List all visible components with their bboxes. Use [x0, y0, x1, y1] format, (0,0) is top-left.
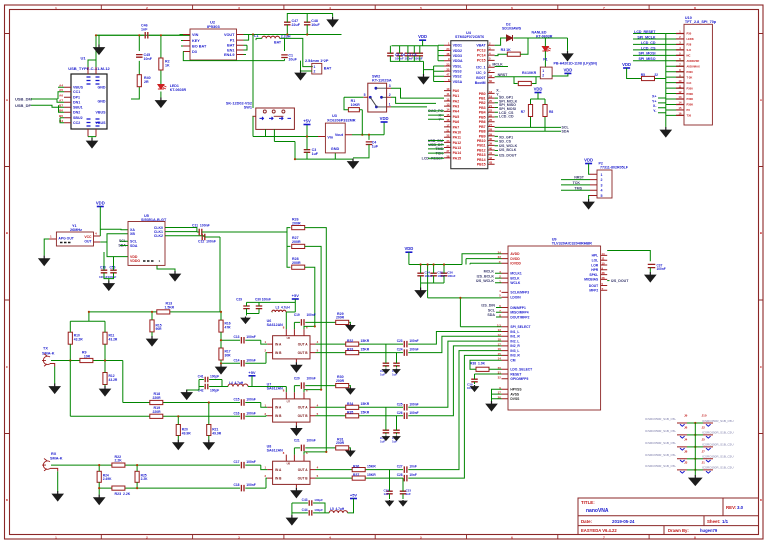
- ground top power rail: [332, 17, 334, 20]
- svg-text:VSS3: VSS3: [453, 70, 462, 74]
- svg-text:L1: L1: [254, 34, 258, 38]
- capacitor C46 1nF: [145, 32, 148, 39]
- wire bypass caps bus: [390, 46, 423, 74]
- ground L5 cluster: [291, 515, 293, 518]
- svg-text:R8: R8: [549, 110, 553, 114]
- U9 right pin stubs: [601, 255, 608, 290]
- bypass capacitors C5-C9 100nF: [387, 53, 394, 56]
- svg-text:PB0: PB0: [479, 92, 486, 96]
- connector TX SMA: [42, 354, 50, 366]
- svg-text:Date:: Date:: [581, 519, 593, 524]
- capacitor C35 100nF: [430, 273, 437, 276]
- svg-text:X+: X+: [652, 94, 657, 98]
- junction dots coupler: [177, 415, 179, 417]
- svg-text:P30: P30: [687, 32, 692, 36]
- wire R25 stems: [136, 465, 138, 488]
- svg-text:USB_DP: USB_DP: [15, 103, 32, 108]
- svg-text:IN1_L: IN1_L: [510, 330, 519, 334]
- svg-text:PA7: PA7: [453, 125, 460, 129]
- svg-text:GND: GND: [98, 86, 106, 90]
- connector BAT 2pin: [312, 63, 322, 74]
- ground LDO gnd bus: [352, 159, 354, 162]
- svg-text:IN B: IN B: [275, 351, 282, 355]
- svg-text:I2S_BCLK: I2S_BCLK: [499, 148, 517, 152]
- resistor R27 200R: [292, 244, 305, 248]
- svg-text:100nF: 100nF: [409, 348, 418, 352]
- ground C31: [396, 436, 398, 437]
- svg-text:I2S_WCLK: I2S_WCLK: [476, 279, 495, 283]
- U10 pin stubs: [666, 34, 684, 116]
- frame zone ticks top: [101, 5, 649, 10]
- capacitor C30 1uF shunt: [383, 430, 390, 433]
- wire VDD to R5: [627, 68, 666, 79]
- svg-text:MCLK: MCLK: [484, 270, 495, 274]
- svg-text:ICSRC650R_S1B_C5L: ICSRC650R_S1B_C5L: [645, 441, 676, 445]
- svg-text:C50: C50: [110, 265, 116, 269]
- svg-text:12: 12: [498, 333, 502, 337]
- svg-text:17: 17: [446, 123, 450, 127]
- power VDD MCU: [419, 39, 426, 41]
- svg-text:R5: R5: [641, 73, 645, 77]
- svg-text:PA12: PA12: [453, 141, 462, 145]
- svg-text:DIN/MFP1: DIN/MFP1: [510, 306, 526, 310]
- svg-text:100nF: 100nF: [246, 483, 256, 487]
- wire C37 to gnd: [649, 268, 651, 272]
- wire MCLK stub: [495, 66, 508, 68]
- diode D2: [507, 35, 513, 41]
- svg-text:PA1: PA1: [453, 94, 460, 98]
- svg-text:18: 18: [489, 90, 493, 94]
- P2 pin stubs: [590, 174, 597, 195]
- svg-text:ICSRC650R_S1B_C5L: ICSRC650R_S1B_C5L: [645, 429, 676, 433]
- capacitor C22 1uF shunt: [393, 363, 400, 366]
- svg-text:TCK: TCK: [573, 181, 581, 185]
- svg-text:2: 2: [314, 70, 316, 74]
- wire SCL SDA: [495, 127, 561, 131]
- resistor R20 49.9R: [176, 425, 180, 436]
- svg-text:SDA: SDA: [130, 244, 138, 248]
- svg-text:15KR: 15KR: [367, 473, 376, 477]
- inductor L1 2.2uH: [262, 36, 280, 38]
- wire MCU left lower stubs: [428, 111, 444, 158]
- svg-text:PA11: PA11: [453, 136, 461, 140]
- svg-text:2.2K: 2.2K: [115, 459, 123, 463]
- svg-text:NRST: NRST: [498, 73, 509, 77]
- wire R17 stems: [220, 340, 222, 363]
- wire U5 SCL SDA stubs: [120, 241, 128, 245]
- resistor R3 1K: [507, 52, 520, 56]
- svg-text:LEDK: LEDK: [687, 37, 694, 41]
- svg-text:1/1: 1/1: [722, 519, 729, 524]
- svg-text:2R: 2R: [144, 80, 149, 84]
- svg-text:43.2R: 43.2R: [74, 338, 83, 342]
- svg-text:22: 22: [654, 73, 658, 77]
- svg-text:VSSA: VSSA: [453, 80, 463, 84]
- svg-text:J3: J3: [684, 461, 688, 465]
- wire LCD signal wires: [633, 34, 666, 61]
- svg-text:VBUS: VBUS: [96, 111, 107, 115]
- svg-text:KT-0603R: KT-0603R: [536, 34, 553, 38]
- svg-text:ICSRC650R_S1B_C5U: ICSRC650R_S1B_C5U: [702, 419, 734, 423]
- svg-text:I2C_0: I2C_0: [476, 71, 485, 75]
- svg-text:IN B: IN B: [275, 477, 282, 481]
- svg-text:LCD_CD: LCD_CD: [499, 115, 514, 119]
- svg-text:T30: T30: [687, 114, 692, 118]
- IC U9 TLV320AIC3204: [508, 246, 601, 410]
- capacitor C11 100nF series: [199, 229, 202, 236]
- ground R30: [349, 387, 351, 389]
- inductor L4 4.7uH: [228, 384, 248, 387]
- U8 pin stubs: [267, 455, 315, 488]
- wire MCU right lower stubs: [495, 136, 498, 155]
- ground below U10 bus: [665, 127, 667, 130]
- svg-text:200R: 200R: [292, 240, 301, 244]
- svg-text:100pF: 100pF: [210, 388, 219, 392]
- svg-text:C28: C28: [397, 473, 403, 477]
- junction dot LO U7: [320, 389, 322, 391]
- svg-text:1uF: 1uF: [312, 152, 319, 156]
- power +5V SW1 out: [304, 124, 311, 126]
- frame zone ticks left: [5, 34, 10, 434]
- svg-text:OUT: OUT: [84, 239, 92, 243]
- svg-text:PA4: PA4: [453, 110, 460, 114]
- svg-text:GND: GND: [331, 147, 340, 151]
- U4 right pin stubs: [488, 45, 495, 164]
- wire R21 stems: [208, 403, 210, 440]
- capacitor C44 100pF: [309, 510, 312, 516]
- ground below U1: [91, 138, 93, 141]
- ground below LED1: [160, 98, 162, 101]
- svg-text:25: 25: [489, 113, 493, 117]
- svg-text:VDD: VDD: [563, 67, 572, 72]
- resistor R23 2.2K: [112, 486, 125, 490]
- svg-text:15KR: 15KR: [361, 411, 370, 415]
- svg-text:49.9R: 49.9R: [212, 431, 221, 435]
- ground U5: [174, 271, 176, 274]
- wire L1 branch: [253, 35, 313, 109]
- svg-text:CC1: CC1: [73, 90, 80, 94]
- U2 left pin stubs: [183, 35, 190, 52]
- svg-text:220R: 220R: [153, 410, 162, 414]
- svg-text:OUT B: OUT B: [298, 414, 309, 418]
- svg-text:KEY: KEY: [192, 39, 200, 43]
- svg-text:IN1_R: IN1_R: [510, 335, 520, 339]
- svg-text:R33: R33: [347, 348, 353, 352]
- svg-text:IN3_R: IN3_R: [510, 354, 520, 358]
- wire R1 connections: [344, 97, 363, 134]
- svg-text:+5V: +5V: [292, 293, 300, 298]
- svg-text:IN A: IN A: [275, 343, 282, 347]
- svg-text:VDD: VDD: [418, 34, 427, 39]
- wire TX shell to gnd: [50, 364, 55, 367]
- svg-text:38: 38: [602, 271, 606, 275]
- wire VDD bus MCU left: [391, 40, 444, 61]
- svg-text:LOL: LOL: [592, 259, 599, 263]
- svg-text:ICSRC650R_S1B_C5U: ICSRC650R_S1B_C5U: [702, 431, 734, 435]
- svg-text:3: 3: [601, 183, 603, 187]
- svg-text:U6: U6: [287, 336, 291, 340]
- wire R2 LED branch: [160, 35, 162, 98]
- svg-text:100nF: 100nF: [246, 460, 256, 464]
- power VDD codec: [405, 251, 412, 253]
- resistor R37 15K: [352, 476, 365, 480]
- svg-text:100nF: 100nF: [246, 358, 256, 362]
- capacitor C34 100nF: [417, 273, 424, 276]
- wire R12 stems: [104, 361, 106, 387]
- IC U8 SA612AN mixer: [273, 461, 310, 484]
- wire U1 CC pins: [58, 87, 64, 123]
- svg-text:15: 15: [446, 113, 450, 117]
- capacitor C29b 100nF bypass: [243, 306, 250, 309]
- svg-text:2: 2: [389, 93, 391, 97]
- svg-text:29: 29: [489, 132, 493, 136]
- svg-text:100nF: 100nF: [307, 439, 316, 443]
- svg-text:SPKL: SPKL: [589, 273, 598, 277]
- svg-text:SCLK/MFP3: SCLK/MFP3: [510, 291, 529, 295]
- svg-text:BO0T: BO0T: [476, 76, 486, 80]
- wire C32 C33 shunts: [390, 470, 404, 499]
- svg-text:SW1: SW1: [244, 106, 252, 110]
- wire C3 stems: [306, 137, 308, 160]
- ground below U7: [295, 425, 297, 428]
- frame zone ticks bottom: [101, 535, 649, 540]
- svg-text:MISO/MFP4: MISO/MFP4: [510, 311, 528, 315]
- wire U2 VIN from USB VBUS: [180, 34, 183, 37]
- svg-text:PA14: PA14: [453, 151, 462, 155]
- svg-text:R37: R37: [353, 473, 359, 477]
- +5V L4 cluster power: [249, 375, 256, 377]
- svg-text:ICSRC650R_S1B_C5U: ICSRC650R_S1B_C5U: [702, 455, 734, 459]
- wire VSS pins bus: [424, 66, 445, 82]
- svg-text:L3 4.7uH: L3 4.7uH: [276, 305, 291, 309]
- svg-text:77311-802R05LF: 77311-802R05LF: [600, 166, 629, 170]
- svg-text:C17: C17: [233, 460, 239, 464]
- svg-text:MICBIAS: MICBIAS: [584, 278, 599, 282]
- svg-text:R23: R23: [115, 492, 122, 496]
- svg-text:2019-05-24: 2019-05-24: [612, 519, 635, 524]
- capacitor C23 100nF series: [404, 341, 407, 348]
- svg-text:10R: 10R: [84, 354, 91, 358]
- wire Y1 pin1 to gnd: [44, 239, 49, 256]
- svg-text:100pF: 100pF: [314, 498, 323, 502]
- svg-text:DOUT/MFP2: DOUT/MFP2: [510, 315, 529, 319]
- wire U7 oscillator line: [294, 386, 350, 393]
- svg-text:J9: J9: [684, 414, 688, 418]
- svg-text:1.0K: 1.0K: [478, 362, 486, 366]
- svg-text:18: 18: [498, 338, 502, 342]
- wire VDD to Y1 and U5: [100, 207, 128, 257]
- svg-text:PB9: PB9: [479, 134, 486, 138]
- svg-text:2: 2: [542, 74, 544, 78]
- capacitor C17 100nF series: [241, 462, 244, 469]
- svg-text:C26: C26: [397, 411, 403, 415]
- svg-text:AVDD: AVDD: [510, 252, 520, 256]
- svg-text:EASYEDA V6.4.22: EASYEDA V6.4.22: [581, 528, 617, 533]
- svg-text:IOVDD: IOVDD: [510, 262, 521, 266]
- capacitor C41 100pF: [205, 377, 208, 383]
- svg-text:PB13: PB13: [477, 153, 486, 157]
- capacitor C25 100nF series: [404, 404, 407, 411]
- capacitor C27 10nF series: [404, 466, 407, 473]
- svg-text:C23: C23: [397, 339, 403, 343]
- ground C33: [402, 500, 404, 501]
- wire RX feed line: [51, 465, 267, 470]
- svg-text:C25: C25: [397, 402, 403, 406]
- svg-text:SD103AWS: SD103AWS: [502, 27, 522, 31]
- svg-text:90R: 90R: [156, 327, 163, 331]
- svg-text:VDD1: VDD1: [453, 44, 462, 48]
- svg-text:SDA: SDA: [562, 130, 570, 134]
- svg-text:PA13: PA13: [453, 146, 462, 150]
- svg-text:PB7: PB7: [479, 125, 486, 129]
- svg-text:47: 47: [446, 73, 450, 77]
- U1 left pin stubs: [64, 87, 71, 123]
- svg-text:1: 1: [542, 69, 544, 73]
- wire U2 KEY loop: [181, 41, 285, 61]
- svg-text:J1: J1: [702, 461, 706, 465]
- LED NANLED: [542, 47, 548, 52]
- wire codec gnd pins: [492, 389, 502, 401]
- capacitor C43 100pF: [309, 500, 312, 506]
- svg-text:I2S_DIN: I2S_DIN: [481, 304, 495, 308]
- wire U8 oscillator line: [294, 448, 350, 455]
- svg-text:DVSS: DVSS: [510, 397, 520, 401]
- svg-text:100nF: 100nF: [409, 339, 418, 343]
- wire +5V rail U6: [247, 299, 296, 329]
- svg-text:J8: J8: [684, 450, 688, 454]
- connector P2 SWD: [597, 170, 612, 198]
- junction dot LO U8: [325, 451, 327, 453]
- svg-text:Y+: Y+: [652, 99, 657, 103]
- svg-text:48: 48: [446, 52, 450, 56]
- svg-text:1K: 1K: [165, 64, 170, 68]
- wire U2 right pins join: [244, 35, 249, 55]
- resistor R13 1.5K: [157, 310, 170, 314]
- ground Y1: [43, 256, 45, 259]
- power VDD at P1: [564, 72, 571, 74]
- capacitor C1 10uF: [281, 55, 288, 58]
- resistor R32 15K: [346, 342, 359, 346]
- wire SW1 gnd branch: [274, 142, 353, 160]
- ground below P2: [588, 199, 590, 202]
- wire BAT pin2 to gnd: [301, 70, 312, 72]
- wire R20 stems: [177, 416, 179, 439]
- wire NANLED stems: [544, 38, 546, 67]
- svg-text:1uF: 1uF: [372, 145, 379, 149]
- wire P2 pin5 to gnd: [589, 196, 590, 200]
- svg-text:BAT: BAT: [274, 40, 282, 44]
- junction dots VOUT rail: [286, 33, 288, 35]
- U1 shell pin marks: [87, 77, 91, 126]
- svg-text:USB_TYPE-C-31-M-12: USB_TYPE-C-31-M-12: [68, 66, 110, 71]
- wire coupler row2: [70, 361, 267, 417]
- svg-text:1: 1: [389, 103, 391, 107]
- svg-text:R3 1K: R3 1K: [501, 48, 512, 52]
- wire C1 bottom to gnd bus: [285, 59, 301, 71]
- svg-text:26MHz: 26MHz: [70, 228, 82, 232]
- svg-text:VDD2: VDD2: [453, 49, 462, 53]
- resistor R4 10K: [518, 81, 531, 85]
- capacitor C3 1uF: [304, 150, 311, 153]
- svg-text:AVDDVDF: AVDDVDF: [687, 59, 700, 63]
- title block row lines: [578, 498, 759, 535]
- Y1 pin stubs: [49, 236, 100, 242]
- svg-text:P300: P300: [687, 86, 694, 90]
- svg-text:SA612AN: SA612AN: [267, 386, 284, 390]
- svg-text:O-K: O-K: [687, 81, 692, 85]
- svg-text:RESET: RESET: [510, 372, 521, 376]
- ground below R24: [98, 495, 100, 498]
- svg-text:APG OUT: APG OUT: [58, 237, 74, 241]
- svg-text:SDA: SDA: [487, 313, 495, 317]
- connector P1: [540, 67, 552, 79]
- svg-text:CM: CM: [510, 359, 515, 363]
- svg-text:C30 100nF: C30 100nF: [255, 298, 271, 302]
- svg-text:ICSRC650R_S1B_C5U: ICSRC650R_S1B_C5U: [702, 443, 734, 447]
- svg-text:DP1: DP1: [73, 96, 80, 100]
- IC U6 SA612AN mixer: [273, 336, 310, 359]
- svg-text:16: 16: [446, 118, 450, 122]
- resistor R22 2.2K: [112, 463, 125, 467]
- IC U3 LDO: [325, 123, 345, 153]
- svg-text:T: T: [602, 287, 604, 291]
- resistor R36 15K: [352, 468, 365, 472]
- ground MCU bypass: [423, 74, 425, 77]
- svg-text:C13: C13: [233, 335, 239, 339]
- svg-text:U7: U7: [287, 399, 291, 403]
- svg-text:P30K: P30K: [687, 97, 694, 101]
- capacitor C42 100pF: [205, 384, 208, 390]
- wire codec HPL to C37: [607, 251, 650, 262]
- wire C39: [475, 374, 502, 384]
- svg-text:100nF: 100nF: [425, 274, 433, 278]
- svg-text:5: 5: [364, 93, 366, 97]
- svg-text:PB11: PB11: [477, 144, 486, 148]
- wire I2C pullup bus: [531, 93, 546, 132]
- svg-text:PA2: PA2: [453, 99, 460, 103]
- svg-text:U8: U8: [287, 462, 291, 466]
- svg-text:100nF: 100nF: [447, 274, 455, 278]
- svg-text:10uF: 10uF: [311, 23, 320, 27]
- ground R29: [349, 324, 351, 326]
- svg-text:200R: 200R: [292, 221, 301, 225]
- svg-text:1: 1: [314, 65, 316, 69]
- svg-text:BAT: BAT: [227, 44, 235, 48]
- wire SW2 to MCU nets: [391, 88, 444, 107]
- svg-text:200R: 200R: [336, 379, 345, 383]
- ground xtal caps: [108, 281, 110, 284]
- wire C45 R40 branch: [131, 35, 139, 99]
- capacitor C39 100nF REF: [471, 379, 478, 382]
- svg-text:39: 39: [489, 142, 493, 146]
- svg-text:R32: R32: [347, 339, 353, 343]
- wire codec bypass caps: [421, 265, 444, 288]
- resistor R30 200R: [336, 384, 349, 388]
- svg-text:40: 40: [489, 146, 493, 150]
- svg-text:38: 38: [446, 154, 450, 158]
- capacitor C32 1nF shunt: [386, 491, 393, 494]
- junction dots power: [306, 135, 308, 137]
- svg-text:C15: C15: [233, 398, 239, 402]
- svg-text:1nF: 1nF: [141, 28, 148, 32]
- resistor R10 43.2R: [68, 332, 72, 344]
- resistor R25 2.2K: [135, 471, 139, 482]
- wire RX row2: [99, 478, 267, 488]
- svg-text:+5V: +5V: [248, 370, 256, 375]
- svg-text:R7: R7: [521, 110, 525, 114]
- svg-text:TX: TX: [43, 347, 48, 351]
- power VDD Si5351: [97, 206, 104, 208]
